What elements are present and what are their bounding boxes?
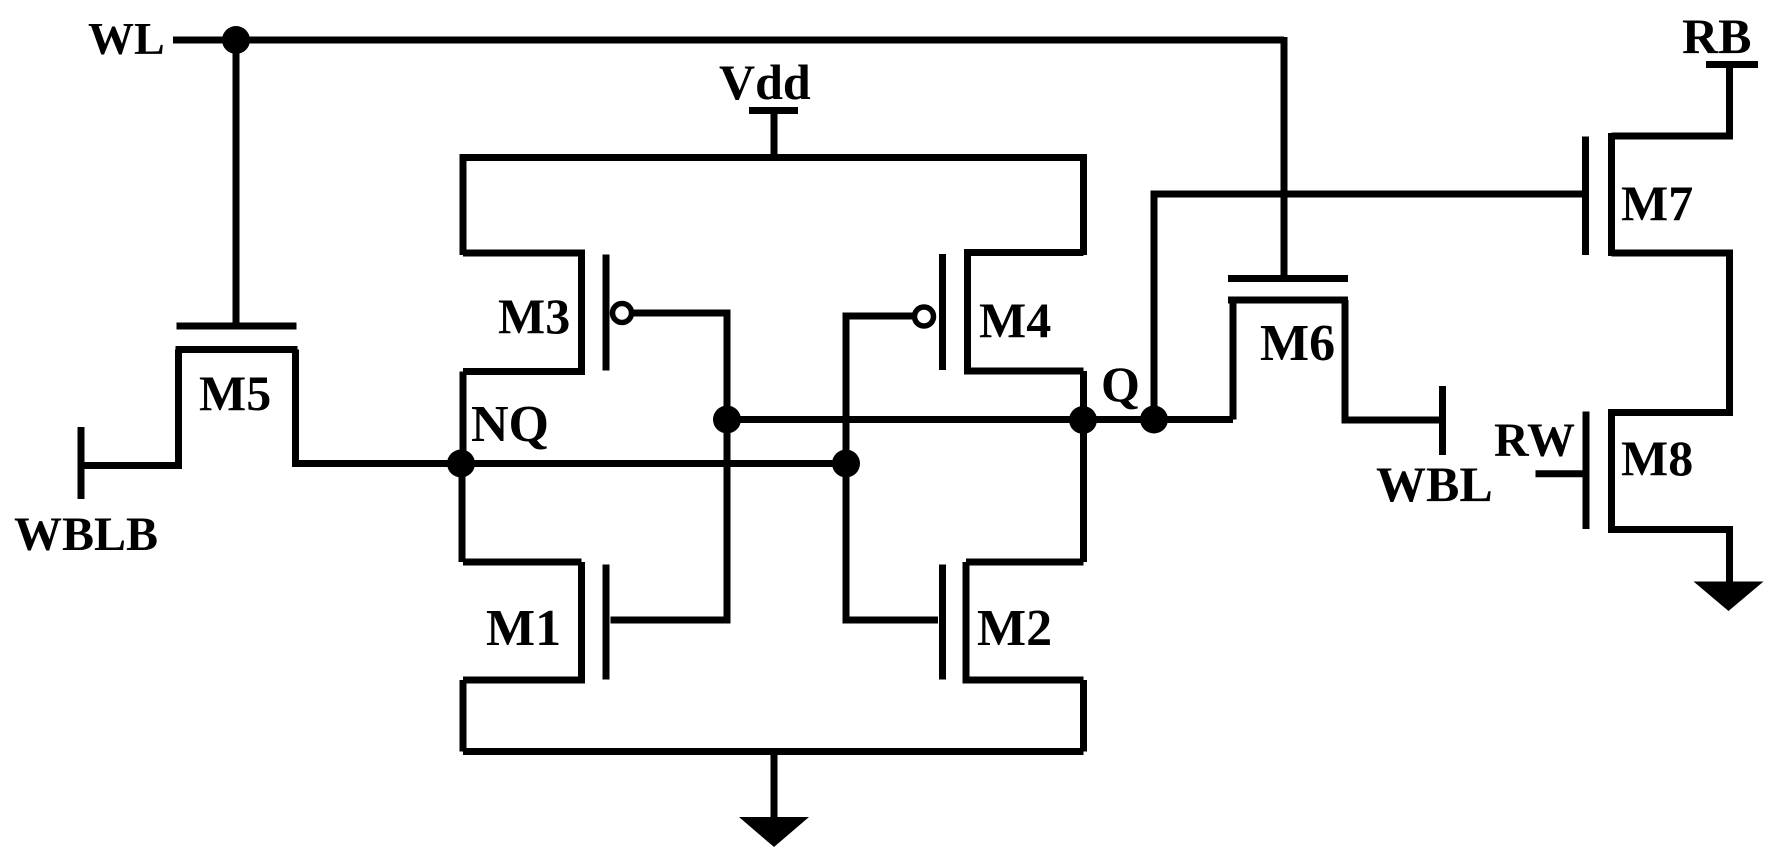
- ground symbol (cell): [739, 817, 809, 847]
- svg-text:M7: M7: [1621, 175, 1693, 231]
- transistor M6 gate bar: [1228, 275, 1348, 282]
- transistor M8 gate bar: [1583, 412, 1590, 530]
- transistor M3 body: [463, 253, 582, 372]
- wire WL horizontal top: [173, 37, 1284, 44]
- transistor M4 gate bubble: [915, 307, 934, 326]
- transistor M2 gate bar: [939, 565, 946, 680]
- transistor M3 gate bubble: [613, 304, 632, 323]
- transistor M4 body: [968, 253, 1084, 372]
- wire Vdd stub: [771, 111, 778, 161]
- node NQ wire: [298, 460, 846, 467]
- svg-text:M6: M6: [1260, 315, 1335, 372]
- terminal WBL bar: [1439, 386, 1446, 455]
- svg-text:M8: M8: [1621, 430, 1693, 486]
- wire M6 left to Q: [1230, 300, 1237, 420]
- svg-text:RW: RW: [1494, 414, 1575, 467]
- svg-text:Vdd: Vdd: [719, 54, 811, 110]
- wire NQ to M1: [459, 464, 466, 563]
- svg-text:NQ: NQ: [471, 396, 549, 453]
- wire WL drop to M5 gate: [233, 40, 240, 324]
- wire RW to M8 gate: [1536, 470, 1584, 477]
- svg-text:M1: M1: [486, 600, 561, 657]
- transistor M7 gate bar: [1582, 137, 1589, 256]
- wire M1 source to rail: [460, 680, 467, 752]
- svg-text:M5: M5: [199, 365, 271, 421]
- wire M5 right to NQ: [296, 350, 462, 464]
- svg-text:WL: WL: [88, 13, 165, 64]
- wire cross-coupling M4 gate to M2 gate: [846, 316, 938, 620]
- transistor M6 channel bar: [1228, 297, 1348, 304]
- transistor M2 body: [966, 562, 1084, 680]
- wire M7 source to M8 drain: [1612, 253, 1730, 413]
- wire WL drop to M6 gate: [1281, 37, 1288, 276]
- junction Q center: [1069, 406, 1097, 434]
- svg-text:M4: M4: [979, 292, 1051, 348]
- ground symbol (read port): [1694, 582, 1764, 612]
- wire ground rail: [463, 748, 1084, 755]
- wire ground stub: [771, 752, 778, 821]
- transistor M5 channel bar: [176, 346, 298, 353]
- svg-text:RB: RB: [1682, 8, 1751, 64]
- wire M2 source to rail: [1080, 680, 1087, 752]
- junction NQ right: [832, 450, 860, 478]
- transistor M3 gate bar: [603, 255, 610, 371]
- transistor M5 gate bar: [177, 323, 297, 330]
- wire Q to M7 gate: [1154, 194, 1582, 420]
- node Q wire: [727, 416, 1233, 423]
- junction NQ left: [447, 450, 475, 478]
- wire M8 source to ground: [1612, 530, 1730, 583]
- wire M7 drain to RB: [1612, 65, 1730, 137]
- svg-text:M3: M3: [498, 288, 570, 344]
- transistor M1 body: [463, 562, 582, 680]
- wire M3 drain to NQ: [460, 372, 467, 464]
- svg-text:M2: M2: [977, 600, 1052, 657]
- transistor M1 gate bar: [603, 565, 610, 680]
- junction Q right: [1140, 406, 1168, 434]
- wire M4 drain column to M2: [1080, 371, 1087, 562]
- wire M6 right to WBL: [1345, 300, 1443, 420]
- wire cross-coupling M3 gate to M1 gate: [611, 313, 728, 620]
- transistor M7 channel: [1608, 133, 1615, 256]
- junction WL/M5: [222, 26, 250, 54]
- svg-text:WBL: WBL: [1376, 456, 1493, 512]
- svg-text:WBLB: WBLB: [14, 508, 158, 561]
- junction Q left: [713, 406, 741, 434]
- wire M5 left to WBLB: [81, 350, 179, 466]
- terminal RB bar: [1706, 61, 1758, 68]
- transistor M4 gate bar: [939, 254, 946, 370]
- terminal WBLB bar: [78, 427, 85, 499]
- transistor M8 channel: [1608, 409, 1615, 533]
- wire Vdd rail: [463, 158, 1084, 256]
- svg-text:Q: Q: [1101, 356, 1140, 412]
- power Vdd terminal bar: [749, 107, 798, 114]
